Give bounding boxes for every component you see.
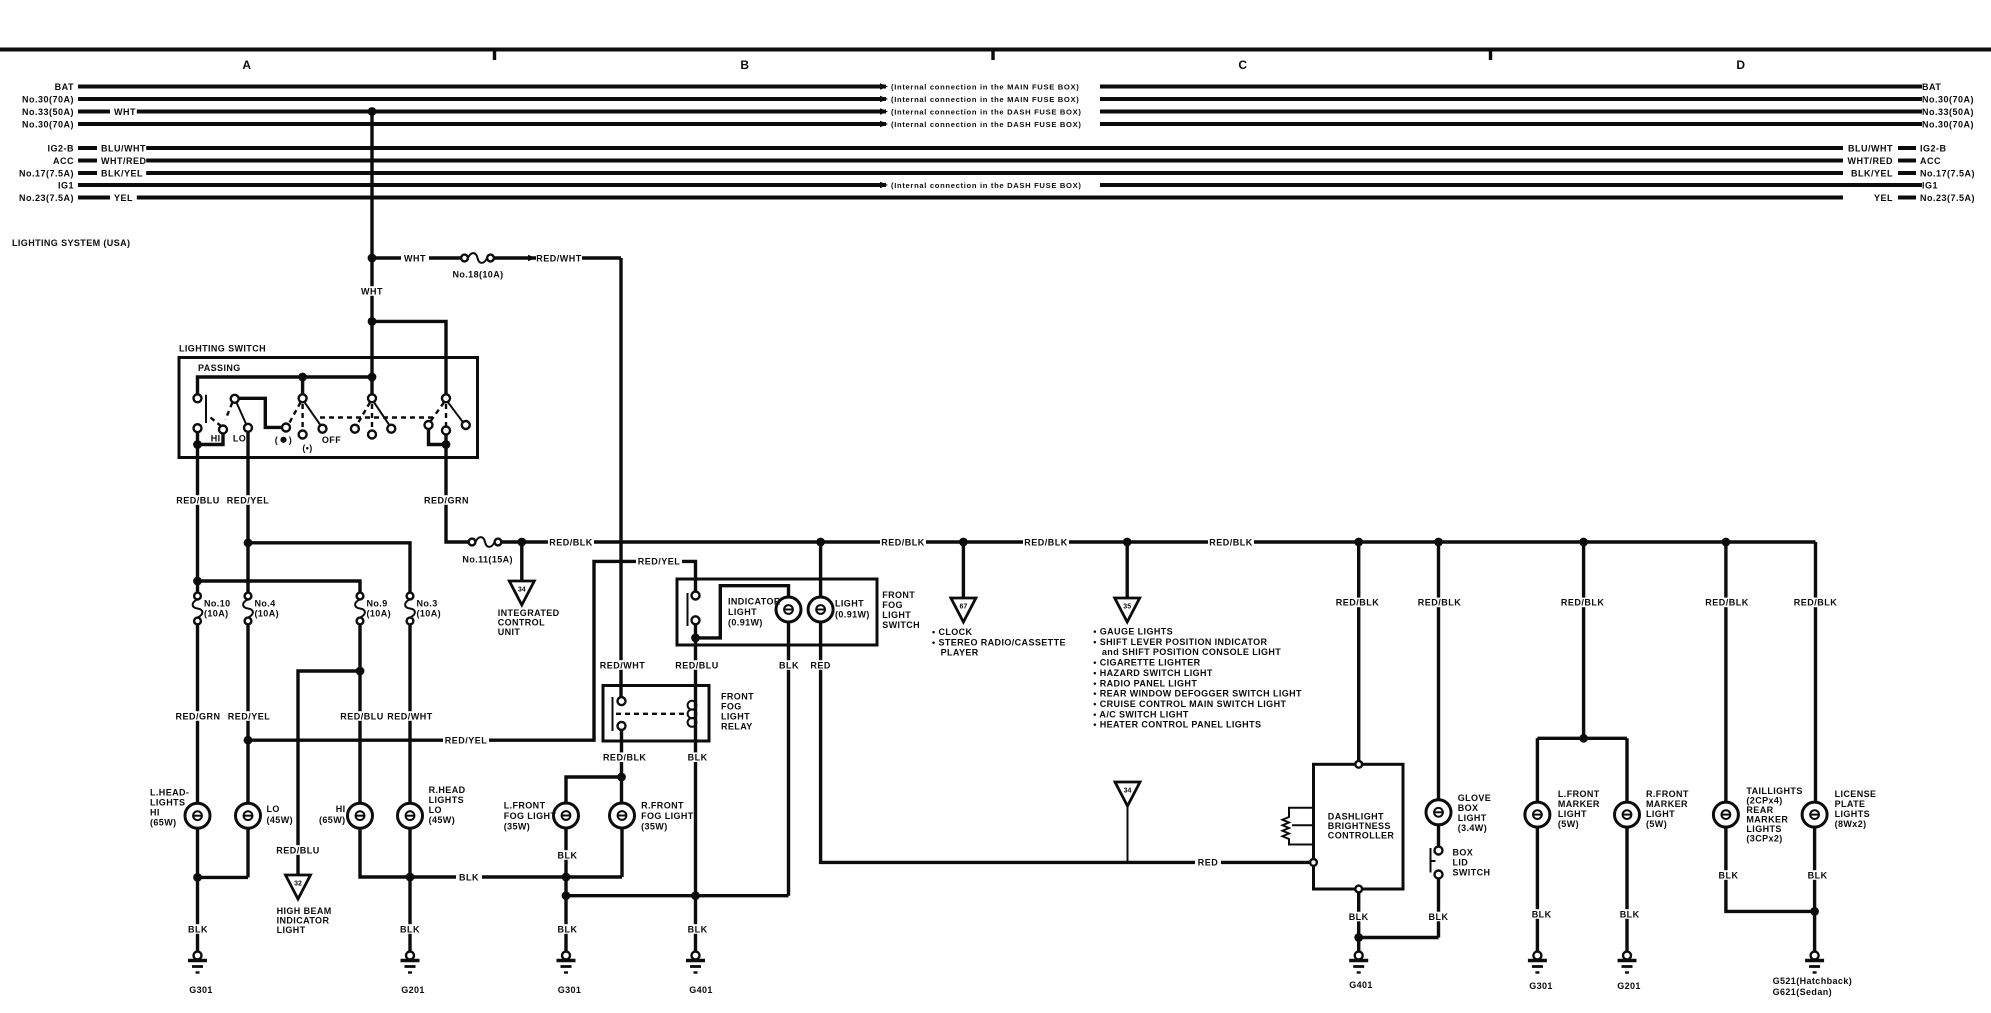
svg-text:D: D xyxy=(1736,58,1745,72)
svg-text:MARKER: MARKER xyxy=(1558,799,1600,809)
bulb R front marker light 5W xyxy=(1615,802,1640,827)
node junction fog ground bus xyxy=(562,891,571,900)
wire RED/BLU to high beam indicator xyxy=(298,671,360,875)
svg-text:BLK: BLK xyxy=(688,924,708,934)
svg-text:A: A xyxy=(242,58,251,72)
contact HI xyxy=(219,426,227,434)
svg-text:LIGHT: LIGHT xyxy=(882,610,911,620)
linkage dashed pole2-pole4 xyxy=(320,416,437,418)
svg-text:L.FRONT: L.FRONT xyxy=(1558,789,1600,799)
svg-text:WHT: WHT xyxy=(114,107,136,117)
connector 35 gauge lights xyxy=(1115,598,1140,622)
svg-text:LIGHT: LIGHT xyxy=(1646,809,1675,819)
pole4 dashed left xyxy=(431,402,445,421)
svg-text:BAT: BAT xyxy=(55,82,74,92)
node junction WHT at fuse No.18 branch xyxy=(368,254,377,263)
svg-text:BLU/WHT: BLU/WHT xyxy=(1848,143,1893,153)
svg-text:WHT: WHT xyxy=(361,286,383,296)
svg-text:(3CPx2): (3CPx2) xyxy=(1746,834,1782,844)
svg-text:G621(Sedan): G621(Sedan) xyxy=(1773,987,1832,997)
svg-text:34: 34 xyxy=(518,587,526,594)
contact pole4 right xyxy=(462,421,470,429)
svg-text:MARKER: MARKER xyxy=(1746,815,1788,825)
svg-text:RED/BLK: RED/BLK xyxy=(1705,598,1749,608)
wire fog switch out xyxy=(694,624,697,685)
svg-text:SWITCH: SWITCH xyxy=(882,620,920,630)
svg-text:HI: HI xyxy=(150,808,160,818)
section tick C/D xyxy=(1489,50,1492,61)
svg-text:CONTROLLER: CONTROLLER xyxy=(1328,831,1395,841)
svg-text:(10A): (10A) xyxy=(417,609,442,619)
svg-text:TAILLIGHTS: TAILLIGHTS xyxy=(1746,786,1802,796)
svg-text:No.3: No.3 xyxy=(417,599,438,609)
wire pole4 contacts to RED/GRN xyxy=(429,429,447,445)
relay upper contact xyxy=(618,697,626,705)
pole2 dashed to (dot) xyxy=(289,402,301,424)
fuse No.11(15A) xyxy=(469,537,502,547)
wire RED/GRN column xyxy=(446,458,469,543)
svg-text:WHT/RED: WHT/RED xyxy=(101,156,147,166)
svg-text:(45W): (45W) xyxy=(429,815,456,825)
wire RED/WHT from fuse No.18 xyxy=(494,256,621,259)
svg-text:(Internal connection in the DA: (Internal connection in the DASH FUSE BO… xyxy=(891,120,1082,129)
fog switch lower contact xyxy=(692,616,700,624)
node junction coil ground xyxy=(691,891,700,900)
svg-text:No.30(70A): No.30(70A) xyxy=(22,119,74,129)
svg-text:HI: HI xyxy=(336,804,346,814)
svg-text:• CRUISE CONTROL MAIN SWITCH L: • CRUISE CONTROL MAIN SWITCH LIGHT xyxy=(1093,699,1286,709)
svg-text:RED/WHT: RED/WHT xyxy=(600,660,646,670)
svg-text:RED/BLK: RED/BLK xyxy=(1209,537,1253,547)
node junction ICU xyxy=(517,538,526,547)
front fog light relay box xyxy=(603,686,709,742)
svg-text:RED/YEL: RED/YEL xyxy=(228,711,271,721)
fuse No.9(10A) xyxy=(355,593,365,625)
wire RED/BLK to license lights xyxy=(1814,542,1817,802)
wire RED/YEL to fog light switch xyxy=(248,561,696,740)
svg-text:(35W): (35W) xyxy=(504,822,531,832)
node junction RED/YEL to No.3 feed xyxy=(244,538,253,547)
wire glove switch to ground bus xyxy=(1359,936,1439,939)
svg-text:(35W): (35W) xyxy=(641,822,668,832)
passing switch contacts xyxy=(194,394,202,402)
wire fog switch light RED to controller xyxy=(821,622,1312,862)
pole3 blade right xyxy=(374,402,390,425)
svg-text:R.HEAD: R.HEAD xyxy=(429,785,466,795)
wire relay out RED/BLK xyxy=(620,730,623,803)
wire WHT vertical drop from No.33 bus xyxy=(370,112,373,395)
front fog light switch box xyxy=(677,579,877,645)
svg-text:R.FRONT: R.FRONT xyxy=(641,801,684,811)
svg-text:PLATE: PLATE xyxy=(1835,799,1866,809)
node junction RED/YEL fog feed xyxy=(244,736,253,745)
bulb L front marker light 5W xyxy=(1525,802,1550,827)
ground G201 xyxy=(401,952,420,973)
wire R headlights ground bus BLK xyxy=(360,828,622,877)
wire indicator light BLK xyxy=(787,622,790,896)
svg-text:B: B xyxy=(740,58,749,72)
svg-text:35: 35 xyxy=(1123,604,1131,611)
svg-text:No.33(50A): No.33(50A) xyxy=(22,107,74,117)
svg-text:G401: G401 xyxy=(689,985,713,995)
section tick A/B xyxy=(493,50,496,61)
svg-text:RED: RED xyxy=(1198,858,1219,868)
svg-text:DASHLIGHT: DASHLIGHT xyxy=(1328,812,1384,822)
wire L marker BLK xyxy=(1536,827,1539,951)
contact parking (small dot) xyxy=(299,431,307,439)
node junction fog switch out xyxy=(691,634,700,643)
connector 34 integrated control unit xyxy=(509,581,534,605)
terminal RED xyxy=(1310,859,1317,866)
svg-text:RED: RED xyxy=(810,660,831,670)
svg-text:No.23(7.5A): No.23(7.5A) xyxy=(19,193,74,203)
svg-text:LIGHTS: LIGHTS xyxy=(1835,809,1870,819)
svg-text:(Internal connection in the DA: (Internal connection in the DASH FUSE BO… xyxy=(891,107,1082,116)
resistor tap xyxy=(1292,824,1314,826)
ground G301 marker xyxy=(1528,952,1547,973)
pole4 blade right xyxy=(448,402,464,423)
wire box lid switch BLK xyxy=(1437,879,1440,938)
wire R marker BLK xyxy=(1625,827,1628,951)
svg-text:and SHIFT POSITION CONSOLE LIG: and SHIFT POSITION CONSOLE LIGHT xyxy=(1102,647,1281,657)
svg-text:C: C xyxy=(1238,58,1247,72)
bulb R headlight LO 45W xyxy=(398,803,423,828)
svg-text:PLAYER: PLAYER xyxy=(941,648,979,658)
svg-text:BLK: BLK xyxy=(1429,912,1449,922)
svg-text:L.FRONT: L.FRONT xyxy=(504,801,546,811)
svg-text:(10A): (10A) xyxy=(367,609,392,619)
svg-text:FRONT: FRONT xyxy=(721,692,754,702)
svg-text:RED/GRN: RED/GRN xyxy=(175,711,220,721)
svg-text:G301: G301 xyxy=(1529,981,1553,991)
wire BLK ground bus xyxy=(566,894,789,897)
bulb R front fog light 35W xyxy=(610,803,635,828)
terminal bottom xyxy=(1355,886,1362,893)
svg-text:FOG: FOG xyxy=(882,600,903,610)
pole3 pivot xyxy=(368,394,376,402)
wire passing lower contact down RED/BLU xyxy=(196,432,199,457)
dimmer blade to LO xyxy=(237,403,247,425)
bulb glove box light 3.4W xyxy=(1426,800,1451,825)
svg-text:No.17(7.5A): No.17(7.5A) xyxy=(1920,168,1975,178)
svg-text:(65W): (65W) xyxy=(150,818,177,828)
ground G401 fog xyxy=(686,952,705,973)
node junction HI/passing xyxy=(193,440,202,449)
node junction rail to switch light xyxy=(816,538,825,547)
connector 34 above RED wire xyxy=(1127,806,1129,862)
svg-text:BLK/YEL: BLK/YEL xyxy=(101,168,143,178)
svg-text:LIGHT: LIGHT xyxy=(721,712,750,722)
svg-text:RED/BLK: RED/BLK xyxy=(1794,598,1838,608)
node junction fog-headlight bus xyxy=(562,873,571,882)
svg-text:HIGH BEAM: HIGH BEAM xyxy=(277,906,332,916)
svg-text:LID: LID xyxy=(1453,858,1469,868)
svg-text:(: ( xyxy=(275,435,278,445)
node junction R ground xyxy=(406,873,415,882)
wire feed to fuse No.9 xyxy=(198,581,361,593)
svg-text:PASSING: PASSING xyxy=(198,363,241,373)
svg-text:LO: LO xyxy=(429,805,442,815)
svg-text:RED/YEL: RED/YEL xyxy=(445,736,488,746)
contact pole3 right xyxy=(387,425,395,433)
wire RED/YEL headlight column xyxy=(246,624,249,803)
svg-text:BLK: BLK xyxy=(558,850,578,860)
wire RED/BLK to marker lights xyxy=(1582,542,1585,738)
bulb L headlight LO 45W xyxy=(236,803,261,828)
svg-text:RED/BLK: RED/BLK xyxy=(549,537,593,547)
bulb indicator light 0.91W xyxy=(776,597,801,622)
svg-text:BLK: BLK xyxy=(1349,912,1369,922)
wire branch to lighting switch pole 4 xyxy=(372,321,446,394)
fuse No.10(10A) xyxy=(193,593,203,625)
wire RED/BLU column xyxy=(196,458,199,593)
wire relay coil to ground G401 xyxy=(694,741,697,952)
svg-text:• HEATER CONTROL PANEL LIGHTS: • HEATER CONTROL PANEL LIGHTS xyxy=(1093,720,1261,730)
node junction pole3 WHT xyxy=(368,373,377,382)
svg-text:BLK: BLK xyxy=(400,924,420,934)
box lid switch xyxy=(1435,847,1443,855)
lighting switch box xyxy=(179,358,478,458)
svg-text:RED/BLK: RED/BLK xyxy=(1336,598,1380,608)
svg-text:LIGHT: LIGHT xyxy=(835,599,864,609)
contact pole3 left xyxy=(351,425,359,433)
wire drop to integrated control unit xyxy=(520,542,523,581)
wire drop to connector 35 xyxy=(1125,542,1128,598)
linkage dashed passing-dimmer xyxy=(211,418,222,427)
svg-text:RED/WHT: RED/WHT xyxy=(387,711,433,721)
svg-text:RED/GRN: RED/GRN xyxy=(424,495,469,505)
svg-text:BLK: BLK xyxy=(688,753,708,763)
wire RED/BLU fog switch to relay coil xyxy=(674,660,720,670)
svg-text:LIGHT: LIGHT xyxy=(728,607,757,617)
wire RED/BLK to glove box light xyxy=(1437,542,1440,800)
ground G301 fog xyxy=(557,952,576,973)
svg-text:BRIGHTNESS: BRIGHTNESS xyxy=(1328,821,1391,831)
relay coil xyxy=(694,686,697,742)
wire RED/YEL column xyxy=(246,458,249,593)
svg-text:• REAR WINDOW DEFOGGER SWITCH: • REAR WINDOW DEFOGGER SWITCH LIGHT xyxy=(1093,689,1302,699)
svg-text:RED/YEL: RED/YEL xyxy=(638,557,681,567)
svg-text:REAR: REAR xyxy=(1746,805,1773,815)
svg-text:RED/BLU: RED/BLU xyxy=(340,711,384,721)
dashlight brightness controller box xyxy=(1314,764,1404,889)
svg-text:No.30(70A): No.30(70A) xyxy=(22,94,74,104)
relay linkage dashed xyxy=(616,713,687,715)
svg-text:• SHIFT LEVER POSITION INDICAT: • SHIFT LEVER POSITION INDICATOR xyxy=(1093,637,1267,647)
svg-text:No.17(7.5A): No.17(7.5A) xyxy=(19,168,74,178)
svg-text:• RADIO PANEL LIGHT: • RADIO PANEL LIGHT xyxy=(1093,678,1197,688)
pole4 dashed down xyxy=(445,404,447,426)
svg-text:FOG LIGHT: FOG LIGHT xyxy=(641,811,694,821)
svg-text:• HAZARD SWITCH LIGHT: • HAZARD SWITCH LIGHT xyxy=(1093,668,1213,678)
wire HI contact to passing column xyxy=(198,434,224,445)
svg-text:(8Wx2): (8Wx2) xyxy=(1835,819,1867,829)
svg-text:G301: G301 xyxy=(558,985,582,995)
pole2 blade to OFF xyxy=(305,402,321,425)
svg-text:RED/BLK: RED/BLK xyxy=(881,537,925,547)
wire RED/BLK to dashlight controller xyxy=(1357,542,1360,762)
svg-text:(2CPx4): (2CPx4) xyxy=(1746,796,1782,806)
node junction RED/BLU to No.9 feed xyxy=(193,577,202,586)
wire taillights BLK xyxy=(1726,827,1815,911)
node junction fog feed split xyxy=(617,773,626,782)
node junction taillight/license ground xyxy=(1810,907,1819,916)
svg-text:BLU/WHT: BLU/WHT xyxy=(101,143,146,153)
svg-text:RED/BLU: RED/BLU xyxy=(176,495,220,505)
top border rule xyxy=(0,48,1991,52)
svg-text:(5W): (5W) xyxy=(1646,819,1667,829)
svg-text:HI: HI xyxy=(211,434,221,444)
svg-text:(10A): (10A) xyxy=(255,609,280,619)
node junction high-beam branch xyxy=(356,667,365,676)
wire LO contact down RED/YEL xyxy=(246,432,249,458)
svg-text:OFF: OFF xyxy=(322,435,341,445)
svg-text:RED/WHT: RED/WHT xyxy=(536,253,582,263)
svg-text:SWITCH: SWITCH xyxy=(1453,868,1491,878)
wire glove bulb to switch xyxy=(1437,825,1440,847)
svg-text:YEL: YEL xyxy=(1874,193,1893,203)
svg-text:UNIT: UNIT xyxy=(498,627,521,637)
connector 32 high beam indicator light xyxy=(286,875,311,899)
svg-text:67: 67 xyxy=(960,604,968,611)
svg-text:BLK: BLK xyxy=(1532,909,1552,919)
svg-text:BOX: BOX xyxy=(1458,803,1479,813)
main switch pole2 pivot xyxy=(301,377,304,394)
svg-text:RED/BLK: RED/BLK xyxy=(603,753,647,763)
pole4 pivot xyxy=(442,394,450,402)
svg-text:MARKER: MARKER xyxy=(1646,799,1688,809)
wire to indicator light xyxy=(696,586,789,638)
fog switch blade xyxy=(687,593,689,626)
svg-text:LIGHT: LIGHT xyxy=(1558,809,1587,819)
svg-text:L.HEAD-: L.HEAD- xyxy=(150,788,189,798)
svg-text:LIGHTS: LIGHTS xyxy=(429,795,464,805)
svg-text:INTEGRATED: INTEGRATED xyxy=(498,608,560,618)
node junction gauge drop xyxy=(1123,538,1132,547)
wire to L fog light xyxy=(566,777,622,803)
svg-text:BLK: BLK xyxy=(779,660,799,670)
connector 67 clock/stereo xyxy=(951,598,976,622)
svg-text:BLK: BLK xyxy=(188,924,208,934)
svg-text:No.4: No.4 xyxy=(255,599,276,609)
contact (dot-on) xyxy=(282,424,290,432)
svg-text:IG2-B: IG2-B xyxy=(1920,143,1947,153)
node junction pole2 xyxy=(298,373,307,382)
svg-text:LIGHTING SWITCH: LIGHTING SWITCH xyxy=(179,344,266,354)
node junction taillight drop xyxy=(1722,538,1731,547)
svg-text:(45W): (45W) xyxy=(267,815,294,825)
svg-text:LIGHT: LIGHT xyxy=(1458,813,1487,823)
svg-text:RED/BLU: RED/BLU xyxy=(675,660,719,670)
svg-text:FRONT: FRONT xyxy=(882,590,915,600)
pole2 dashed to parking xyxy=(301,404,303,430)
fog switch upper contact xyxy=(692,592,700,600)
resistor dashlight controller xyxy=(1283,808,1314,845)
svg-text:IG1: IG1 xyxy=(1922,180,1938,190)
svg-text:BLK/YEL: BLK/YEL xyxy=(1851,168,1893,178)
contact pole4 center xyxy=(442,427,450,435)
pole3 dashed down xyxy=(371,404,373,430)
fuse No.4(10A) xyxy=(243,593,253,625)
svg-text:(Internal connection in the MA: (Internal connection in the MAIN FUSE BO… xyxy=(891,82,1079,91)
node junction controller/glove ground xyxy=(1354,933,1363,942)
node junction clock drop xyxy=(959,538,968,547)
svg-text:G201: G201 xyxy=(401,985,425,995)
svg-text:LIGHTING SYSTEM (USA): LIGHTING SYSTEM (USA) xyxy=(12,238,130,248)
svg-text:(5W): (5W) xyxy=(1558,819,1579,829)
svg-text:(3.4W): (3.4W) xyxy=(1458,823,1487,833)
svg-text:FOG LIGHT: FOG LIGHT xyxy=(504,811,557,821)
wire RED/BLU headlight column xyxy=(358,624,361,803)
wire feed to fuse No.3 xyxy=(248,543,410,593)
ground G401 controller xyxy=(1349,952,1368,973)
contact LO xyxy=(244,424,252,432)
svg-text:34: 34 xyxy=(1124,788,1132,795)
svg-text:WHT: WHT xyxy=(404,253,426,263)
svg-text:BAT: BAT xyxy=(1922,82,1941,92)
node junction L ground xyxy=(193,873,202,882)
svg-text:LO: LO xyxy=(267,804,280,814)
wire L fog ground xyxy=(564,828,567,952)
svg-text:(65W): (65W) xyxy=(319,815,346,825)
node junction marker split xyxy=(1579,734,1588,743)
wire RED/WHT vertical to fog light relay xyxy=(619,258,622,698)
wire RED/WHT headlight column xyxy=(408,624,411,803)
svg-text:RELAY: RELAY xyxy=(721,722,753,732)
node junction marker drop xyxy=(1579,538,1588,547)
svg-text:(Internal connection in the DA: (Internal connection in the DASH FUSE BO… xyxy=(891,181,1082,190)
svg-text:(Internal connection in the MA: (Internal connection in the MAIN FUSE BO… xyxy=(891,95,1079,104)
svg-text:• CLOCK: • CLOCK xyxy=(932,627,973,637)
svg-text:(0.91W): (0.91W) xyxy=(728,618,763,628)
svg-text:G521(Hatchback): G521(Hatchback) xyxy=(1773,976,1853,986)
ground G201 marker xyxy=(1618,952,1637,973)
svg-text:No.10: No.10 xyxy=(204,599,231,609)
svg-text:): ) xyxy=(289,435,292,445)
wire controller BLK to ground xyxy=(1357,892,1360,951)
bulb L headlight HI 65W xyxy=(185,803,210,828)
fuse No.18(10A) xyxy=(461,253,494,263)
svg-text:IG1: IG1 xyxy=(58,180,74,190)
wire WHT to fuse No.18 xyxy=(372,256,461,259)
svg-text:BLK: BLK xyxy=(1620,909,1640,919)
node junction pole4 out xyxy=(442,440,451,449)
node junction WHT branch to switch 2nd pole xyxy=(368,317,377,326)
wire switch feed bar xyxy=(198,377,373,394)
wire drop to connector 67 xyxy=(962,542,965,598)
svg-text:BLK: BLK xyxy=(459,872,479,882)
wire R fog to ground bus xyxy=(620,828,623,877)
svg-text:(•): (•) xyxy=(302,443,312,453)
svg-text:No.30(70A): No.30(70A) xyxy=(1922,94,1974,104)
svg-text:(0.91W): (0.91W) xyxy=(835,610,870,620)
svg-text:CONTROL: CONTROL xyxy=(498,618,545,628)
terminal top xyxy=(1355,761,1362,768)
ground G301 left xyxy=(188,952,207,973)
svg-text:YEL: YEL xyxy=(114,193,133,203)
passing switch blade xyxy=(205,395,207,423)
svg-text:BLK: BLK xyxy=(558,924,578,934)
svg-text:INDICATOR: INDICATOR xyxy=(277,916,330,926)
svg-text:LIGHTS: LIGHTS xyxy=(150,798,185,808)
contact OFF xyxy=(319,425,327,433)
svg-text:BLK: BLK xyxy=(1719,870,1739,880)
svg-text:ACC: ACC xyxy=(53,156,74,166)
svg-text:No.23(7.5A): No.23(7.5A) xyxy=(1920,193,1975,203)
svg-text:LO: LO xyxy=(233,434,246,444)
svg-text:WHT/RED: WHT/RED xyxy=(1848,156,1894,166)
bulb license plate lights xyxy=(1802,802,1827,827)
